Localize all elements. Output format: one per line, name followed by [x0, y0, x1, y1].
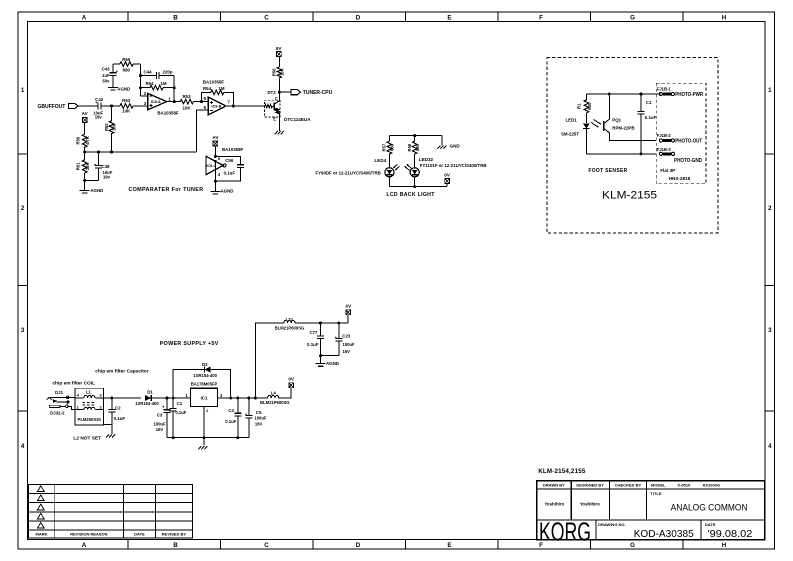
- node: [640, 93, 643, 96]
- svg-text:HNS-2818: HNS-2818: [669, 176, 691, 181]
- svg-text:KLM-2155: KLM-2155: [602, 189, 657, 201]
- svg-text:BA10358F: BA10358F: [157, 111, 179, 116]
- wire (bottom rail): [167, 437, 249, 439]
- capacitor C56 0.1uF: [215, 156, 240, 164]
- node (C42/R63/R62 junction): [110, 104, 113, 107]
- capacitor C2 0.1uF: [111, 398, 113, 409]
- op-amp IC8-C: [206, 156, 223, 174]
- svg-text:R64: R64: [145, 81, 154, 86]
- svg-text:50v: 50v: [102, 78, 110, 83]
- svg-text:PHOTO-GND: PHOTO-GND: [674, 158, 702, 164]
- svg-text:R1: R1: [577, 103, 582, 109]
- power 0V: [446, 184, 448, 187]
- wire (reference rail): [85, 151, 197, 153]
- svg-text:0.1uF: 0.1uF: [307, 342, 319, 347]
- svg-text:D: D: [356, 15, 361, 22]
- svg-text:BLM21P600SG: BLM21P600SG: [275, 326, 305, 331]
- svg-text:4: 4: [768, 443, 772, 450]
- svg-text:REVISION REASON: REVISION REASON: [70, 532, 107, 537]
- wire: [133, 105, 148, 107]
- svg-text:L1: L1: [86, 389, 92, 394]
- svg-text:DT2: DT2: [267, 90, 276, 95]
- svg-text:4.7K: 4.7K: [85, 136, 90, 145]
- ground (chassis): [203, 438, 205, 446]
- svg-text:DESIGNED BY: DESIGNED BY: [576, 483, 604, 488]
- revision mark triangle 5: [37, 523, 44, 529]
- capacitor C1 0.1uF: [640, 94, 642, 111]
- svg-text:C: C: [275, 96, 278, 101]
- svg-text:3: 3: [768, 327, 772, 334]
- svg-text:AGND: AGND: [326, 361, 339, 366]
- svg-text:F: F: [539, 15, 543, 22]
- resistor R56 10K: [277, 67, 281, 78]
- svg-text:220p: 220p: [163, 69, 173, 74]
- op-amp IC8-A BA10358F: [141, 95, 148, 97]
- capacitor C3 100uF 16V: [166, 398, 168, 410]
- resistor R54 1M (feedback): [202, 92, 211, 101]
- connector dashed box: [656, 83, 706, 184]
- node: [337, 322, 340, 325]
- node: [173, 86, 176, 89]
- svg-text:R54: R54: [203, 86, 212, 91]
- svg-text:1SR154-400: 1SR154-400: [135, 401, 159, 406]
- svg-text:R65: R65: [122, 57, 131, 62]
- node: [319, 354, 322, 357]
- revision mark triangle 4: [37, 513, 44, 519]
- svg-text:Flat 3P: Flat 3P: [660, 168, 675, 173]
- svg-text:AX1000G: AX1000G: [703, 483, 721, 488]
- svg-text:AGND: AGND: [90, 188, 103, 193]
- svg-text:ANALOG COMMON: ANALOG COMMON: [671, 502, 748, 512]
- resistor R64 1M: [141, 87, 151, 89]
- svg-text:DRAWN BY: DRAWN BY: [543, 483, 565, 488]
- ground AGND: [84, 181, 86, 191]
- wire: [84, 123, 86, 135]
- svg-text:C2: C2: [115, 405, 121, 410]
- svg-text:REVISED BY: REVISED BY: [162, 532, 187, 537]
- svg-text:POWER SUPPLY +5V: POWER SUPPLY +5V: [160, 341, 219, 347]
- wire (IC8-A output): [167, 101, 181, 103]
- svg-text:R53: R53: [182, 94, 191, 99]
- power 0V: [289, 383, 294, 388]
- svg-text:BA178M05FP: BA178M05FP: [191, 382, 218, 387]
- node: [83, 179, 86, 182]
- node: [319, 322, 322, 325]
- phototransistor PQ1 RPM-22PB: [603, 121, 605, 131]
- node: [254, 397, 257, 400]
- svg-text:LCD BACK LIGHT: LCD BACK LIGHT: [386, 192, 435, 198]
- revision table: [28, 484, 192, 538]
- power AV: [347, 315, 349, 323]
- svg-text:BA10358F: BA10358F: [203, 79, 225, 84]
- svg-text:C1: C1: [177, 401, 183, 406]
- inductor L1 PLM250S30: [75, 388, 104, 425]
- svg-text:0V: 0V: [288, 377, 295, 382]
- svg-text:IC8-A: IC8-A: [151, 100, 161, 104]
- wire (riser to AV rail): [255, 323, 284, 398]
- svg-text:SM-225T: SM-225T: [561, 132, 579, 137]
- svg-text:2: 2: [768, 205, 772, 212]
- svg-text:1M: 1M: [218, 86, 224, 91]
- svg-text:C38: C38: [102, 164, 110, 169]
- revision mark triangle 1: [37, 486, 44, 492]
- svg-text:R56: R56: [271, 68, 276, 76]
- wire: [85, 180, 99, 182]
- svg-text:BA10358F: BA10358F: [222, 147, 244, 152]
- svg-text:'99.08.02: '99.08.02: [708, 529, 753, 540]
- svg-text:0.1uF: 0.1uF: [645, 115, 657, 120]
- svg-text:PQ1: PQ1: [612, 117, 621, 122]
- svg-text:KORG: KORG: [539, 519, 591, 547]
- capacitor C4 0.1uF: [237, 398, 239, 413]
- svg-text:100uF: 100uF: [153, 422, 166, 427]
- svg-text:AV: AV: [82, 111, 89, 116]
- svg-text:0.1uF: 0.1uF: [114, 416, 126, 421]
- inductor L21 BLM21P600SG: [284, 321, 295, 323]
- svg-text:22K: 22K: [85, 162, 90, 170]
- wire (IC8-B output): [226, 105, 264, 107]
- svg-text:R57: R57: [382, 143, 387, 151]
- svg-text:E: E: [273, 117, 276, 122]
- wire: [78, 105, 98, 107]
- svg-text:G: G: [630, 542, 635, 549]
- svg-text:10K: 10K: [112, 123, 117, 131]
- transistor DT2 DTC114EUA: [264, 100, 280, 117]
- capacitor C43 1uF 50v: [112, 64, 114, 73]
- node: [232, 105, 235, 108]
- svg-text:16V: 16V: [255, 421, 263, 426]
- svg-text:LED32: LED32: [419, 157, 434, 162]
- svg-text:D1: D1: [147, 390, 153, 395]
- node: [172, 436, 175, 439]
- svg-text:FJ1B-1: FJ1B-1: [657, 87, 672, 92]
- wire (through to pin 4): [214, 161, 216, 181]
- svg-text:L21: L21: [286, 317, 294, 322]
- svg-text:0.1uF: 0.1uF: [225, 419, 236, 424]
- capacitor C38 10uF 16v: [98, 152, 100, 165]
- wire (top rail): [586, 93, 661, 95]
- svg-text:chip em filter COIL: chip em filter COIL: [52, 380, 95, 386]
- svg-text:4: 4: [21, 443, 25, 450]
- node: [229, 397, 232, 400]
- node: [640, 152, 643, 155]
- svg-text:0.1uF: 0.1uF: [175, 410, 186, 415]
- wire: [101, 105, 120, 107]
- node: [214, 180, 217, 183]
- svg-text:2: 2: [21, 205, 25, 212]
- ground AGND (IC8-C): [214, 181, 216, 191]
- svg-text:PLM250S30: PLM250S30: [78, 417, 102, 422]
- connector TUNER-CPU: [279, 91, 291, 93]
- node: [139, 74, 142, 77]
- svg-text:680: 680: [587, 102, 592, 110]
- svg-text:1uF: 1uF: [102, 73, 110, 78]
- node: [166, 397, 169, 400]
- revision mark triangle 2: [37, 495, 44, 501]
- svg-text:PHOTO-OUT: PHOTO-OUT: [675, 138, 703, 144]
- svg-text:Yoshihiro: Yoshihiro: [580, 501, 600, 506]
- svg-text:R58: R58: [407, 143, 412, 151]
- svg-text:H: H: [722, 15, 727, 22]
- svg-text:LED4: LED4: [375, 158, 387, 163]
- title block: [537, 481, 765, 540]
- node: [278, 91, 281, 94]
- wire (IC1 pin 2 down): [203, 406, 205, 437]
- svg-text:DATE: DATE: [134, 532, 145, 537]
- diode D1 1SR154-400: [145, 395, 151, 401]
- resistor R1 680: [585, 94, 587, 100]
- svg-text:MARK: MARK: [36, 532, 48, 537]
- capacitor C5 100uF 16V: [248, 398, 250, 415]
- svg-text:C44: C44: [143, 69, 152, 74]
- resistor R63 10K: [120, 104, 133, 109]
- resistor R65 680: [113, 63, 120, 65]
- svg-text:0V: 0V: [444, 172, 451, 177]
- svg-text:1SR154-400: 1SR154-400: [193, 373, 217, 378]
- node: [139, 86, 142, 89]
- svg-text:AGND: AGND: [117, 87, 130, 92]
- svg-text:DRAWING NO.: DRAWING NO.: [598, 522, 626, 527]
- resistor R61 22K: [84, 152, 86, 160]
- svg-text:R62: R62: [104, 123, 109, 131]
- svg-text:100uF: 100uF: [343, 342, 356, 347]
- svg-text:1M: 1M: [160, 81, 166, 86]
- op-amp IC8-B BA10358F: [208, 97, 226, 115]
- node: [172, 397, 175, 400]
- svg-text:A: A: [82, 15, 87, 22]
- svg-text:DTC114EUA: DTC114EUA: [284, 117, 311, 122]
- svg-text:C1: C1: [646, 100, 652, 105]
- node: [83, 151, 86, 154]
- resistor R58 680: [414, 136, 416, 142]
- svg-text:C77: C77: [309, 330, 318, 335]
- svg-text:C: C: [264, 15, 269, 22]
- regulator IC1 BA178M05FP: [190, 388, 217, 406]
- svg-text:MODEL: MODEL: [651, 483, 666, 488]
- svg-text:FJ1B-2: FJ1B-2: [657, 133, 672, 138]
- node: [413, 134, 416, 137]
- svg-text:DATE: DATE: [705, 522, 716, 527]
- svg-text:C3: C3: [157, 412, 163, 417]
- node: [200, 100, 203, 103]
- svg-text:FJ1B-3: FJ1B-3: [657, 147, 672, 152]
- svg-text:D2: D2: [202, 362, 208, 367]
- wire: [214, 146, 216, 156]
- resistor R59 4.7K: [82, 134, 87, 147]
- resistor R57 680: [388, 136, 390, 142]
- svg-text:DJ1: DJ1: [55, 390, 64, 395]
- svg-text:TITLE: TITLE: [650, 491, 661, 496]
- svg-text:E: E: [447, 542, 451, 549]
- svg-text:0.1uF: 0.1uF: [224, 170, 236, 175]
- svg-text:GND: GND: [450, 144, 461, 149]
- svg-text:COMPARATER For TUNER: COMPARATER For TUNER: [128, 187, 203, 193]
- svg-text:AV: AV: [345, 304, 352, 309]
- capacitor C42 10uF 16v: [98, 102, 101, 109]
- svg-text:CHECKED BY: CHECKED BY: [615, 483, 642, 488]
- wire (rail to pin 6): [197, 110, 209, 152]
- svg-text:680: 680: [123, 67, 131, 72]
- node: [173, 100, 176, 103]
- svg-text:chip em filter Capacitor: chip em filter Capacitor: [95, 369, 148, 375]
- svg-text:10K: 10K: [122, 109, 131, 114]
- diode D2 1SR154-400 (bypass): [173, 370, 204, 399]
- svg-text:C23: C23: [342, 334, 351, 339]
- node: [203, 436, 206, 439]
- svg-text:KLM-2154,2155: KLM-2154,2155: [538, 468, 586, 475]
- svg-text:PHOTO-PWR: PHOTO-PWR: [675, 92, 703, 98]
- svg-text:FOOT SENSER: FOOT SENSER: [588, 168, 627, 174]
- svg-text:16V: 16V: [343, 349, 351, 354]
- svg-text:C: C: [264, 542, 269, 549]
- svg-text:R63: R63: [122, 98, 131, 103]
- svg-text:C56: C56: [225, 158, 234, 163]
- svg-text:16v: 16v: [103, 175, 111, 180]
- wire (pin2 branch vertical): [140, 64, 142, 96]
- resistor R53 10K: [180, 99, 193, 104]
- svg-text:E: E: [447, 15, 451, 22]
- svg-text:Yoshihiro: Yoshihiro: [544, 501, 564, 506]
- node: [608, 93, 611, 96]
- svg-text:R61: R61: [75, 162, 80, 170]
- wire: [321, 355, 339, 357]
- svg-text:GBUFFOUT: GBUFFOUT: [38, 104, 66, 110]
- capacitor C23 100uF 16V: [338, 323, 340, 338]
- svg-text:LED1: LED1: [566, 117, 578, 122]
- svg-text:10K: 10K: [280, 68, 285, 76]
- svg-text:H: H: [722, 542, 727, 549]
- svg-text:B: B: [173, 15, 178, 22]
- svg-text:C4: C4: [228, 408, 234, 413]
- svg-text:IC1: IC1: [201, 395, 208, 400]
- svg-text:TUNER-CPU: TUNER-CPU: [303, 90, 333, 96]
- capacitor C44 220p: [141, 75, 157, 77]
- svg-text:A: A: [82, 542, 87, 549]
- ground GND (chassis): [441, 136, 443, 146]
- svg-text:1: 1: [21, 87, 25, 94]
- svg-text:FY90DF or 12-21UYC/S400/TRB: FY90DF or 12-21UYC/S400/TRB: [315, 170, 380, 175]
- svg-text:RPM-22PB: RPM-22PB: [612, 126, 634, 131]
- svg-text:680: 680: [390, 143, 395, 151]
- wire (bottom rail): [389, 186, 447, 188]
- svg-text:100uF: 100uF: [254, 415, 267, 420]
- svg-text:B: B: [173, 542, 178, 549]
- svg-text:BLM21P600SG: BLM21P600SG: [260, 400, 290, 405]
- svg-text:AV: AV: [212, 135, 219, 140]
- svg-text:G: G: [630, 15, 635, 22]
- ground (chassis): [278, 112, 280, 130]
- svg-text:DJ32-2: DJ32-2: [50, 410, 65, 415]
- node: [236, 436, 239, 439]
- wire (top rail): [389, 135, 442, 137]
- capacitor C1 0.1uF (regulator input): [172, 398, 174, 408]
- svg-text:L2 NOT SET: L2 NOT SET: [73, 435, 101, 441]
- svg-text:AGND: AGND: [221, 189, 234, 194]
- svg-text:KOD-A30385: KOD-A30385: [634, 529, 694, 540]
- svg-text:FY1101F or 12-21UYC/S400/TRB: FY1101F or 12-21UYC/S400/TRB: [420, 163, 487, 168]
- svg-text:5V: 5V: [276, 46, 283, 51]
- node: [97, 151, 100, 154]
- svg-text:L4: L4: [271, 391, 277, 396]
- svg-text:16v: 16v: [95, 115, 103, 120]
- svg-text:D: D: [356, 542, 361, 549]
- svg-text:10K: 10K: [182, 105, 191, 110]
- svg-text:X-8510: X-8510: [677, 483, 691, 488]
- svg-text:16V: 16V: [156, 427, 164, 432]
- wire (feedback vertical): [173, 76, 175, 102]
- svg-text:1: 1: [768, 87, 772, 94]
- capacitor C77 0.1uF: [320, 323, 322, 336]
- ground AGND: [320, 356, 322, 364]
- resistor R62 10K: [111, 106, 113, 122]
- wire (main rail): [104, 397, 142, 399]
- ground (chassis): [111, 425, 113, 434]
- opto arrows: [591, 123, 599, 128]
- ground AGND: [112, 75, 114, 87]
- foot senser outer dashed box: [547, 58, 718, 233]
- svg-text:R59: R59: [75, 136, 80, 144]
- wire (bottom of filter): [104, 424, 112, 426]
- svg-text:C5: C5: [256, 410, 262, 415]
- wire (bottom rail): [586, 153, 656, 155]
- node: [110, 151, 113, 154]
- svg-text:IC8-B: IC8-B: [212, 105, 222, 109]
- wire (collector up): [278, 78, 280, 100]
- node (pin 8): [214, 155, 217, 158]
- revision mark triangle 3: [37, 504, 44, 510]
- node: [413, 185, 416, 188]
- wire: [193, 101, 208, 103]
- svg-text:680: 680: [415, 143, 420, 151]
- svg-text:C43: C43: [102, 67, 111, 72]
- svg-text:3: 3: [21, 327, 25, 334]
